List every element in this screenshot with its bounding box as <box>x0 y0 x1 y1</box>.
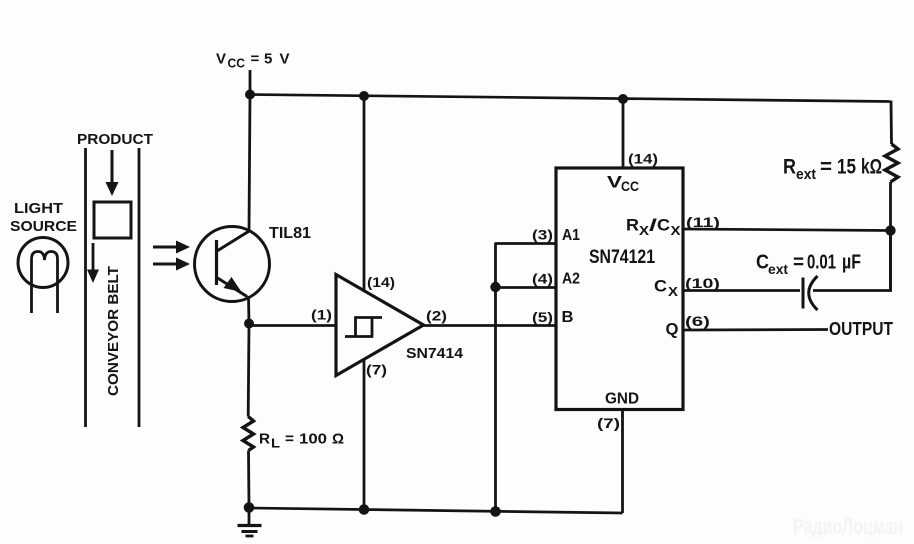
svg-text:ext: ext <box>796 166 816 183</box>
svg-text:(11): (11) <box>686 214 720 230</box>
wire RL to ground rail <box>247 451 250 509</box>
svg-text:V: V <box>216 51 226 68</box>
resistor Rext zigzag <box>885 144 898 182</box>
svg-text:X: X <box>639 223 649 238</box>
label LIGHT SOURCE <box>10 200 77 235</box>
hysteresis symbol <box>345 318 382 337</box>
svg-text:(7): (7) <box>366 362 387 378</box>
svg-text:(14): (14) <box>628 151 658 167</box>
conveyor belt left line <box>84 148 87 427</box>
wire emitter node to RL <box>247 324 251 417</box>
node VCC label <box>216 51 290 71</box>
belt motion arrow <box>87 243 99 283</box>
wire emitter to U1 input <box>249 324 336 327</box>
junction dot ground/U1 pin7 <box>359 504 370 515</box>
wire U2 pin11 to Rext node <box>683 229 891 231</box>
product square <box>94 202 131 238</box>
junction dot emitter node <box>244 319 254 329</box>
svg-text:OUTPUT: OUTPUT <box>829 319 893 339</box>
wire ground rail <box>249 508 623 513</box>
svg-text:CONVEYOR BELT: CONVEYOR BELT <box>105 266 122 396</box>
svg-text:R: R <box>259 431 270 448</box>
IC U2 SN74121 box <box>556 168 683 410</box>
svg-text:CC: CC <box>621 179 639 194</box>
wire top VCC rail <box>249 95 891 102</box>
svg-text:L: L <box>271 437 280 451</box>
junction dot Rext/Cext node <box>885 225 895 235</box>
conveyor belt right line <box>138 148 141 427</box>
op-amp U1 SN7414 schmitt inverter triangle <box>336 275 424 376</box>
junction dot VCC/U1 pin14 <box>359 91 369 101</box>
svg-text:(14): (14) <box>367 274 395 290</box>
svg-text:100: 100 <box>299 431 327 448</box>
svg-text:(1): (1) <box>311 307 332 323</box>
svg-text:(10): (10) <box>685 275 720 291</box>
svg-text:A1: A1 <box>562 227 580 244</box>
wire U1 output to U2 pin B <box>423 324 556 327</box>
svg-text:CC: CC <box>228 57 246 71</box>
transistor Q1 TIL81 phototransistor <box>195 227 270 302</box>
svg-text:15: 15 <box>837 156 856 179</box>
svg-text:0.01: 0.01 <box>807 252 836 274</box>
wire VCC rail to Rext <box>890 101 893 145</box>
svg-text:C: C <box>654 277 667 296</box>
svg-text:(5): (5) <box>532 309 553 325</box>
svg-text:PRODUCT: PRODUCT <box>77 132 153 148</box>
wire U2 Q output <box>683 328 828 331</box>
svg-text:X: X <box>668 284 678 299</box>
svg-text:Q: Q <box>666 320 679 339</box>
junction dot VCC/U2 pin14 <box>618 94 628 104</box>
junction dot ground/A-net <box>490 506 501 517</box>
wire Rext to node <box>889 182 892 291</box>
svg-text:R: R <box>783 156 796 179</box>
svg-text:R: R <box>626 216 639 235</box>
label RL value <box>259 431 344 451</box>
svg-text:=: = <box>285 431 294 448</box>
svg-text:LIGHT: LIGHT <box>14 200 63 217</box>
svg-text:(6): (6) <box>685 313 710 329</box>
wire U2 pin4 A2 <box>496 286 557 289</box>
svg-text:(2): (2) <box>426 308 447 324</box>
svg-text:ext: ext <box>768 261 788 277</box>
svg-text:V: V <box>280 51 290 68</box>
svg-text:РадиоЛоцман: РадиоЛоцман <box>793 514 903 539</box>
label Rext value <box>783 156 882 184</box>
svg-text:Ω: Ω <box>332 431 344 448</box>
wire VCC stub <box>249 70 252 95</box>
svg-text:SOURCE: SOURCE <box>10 218 77 235</box>
svg-text:µF: µF <box>842 252 861 274</box>
wire U1 pin14 to VCC rail <box>363 96 366 291</box>
label U2 RX/CX pin name <box>626 216 681 239</box>
svg-text:SN74121: SN74121 <box>589 247 655 268</box>
svg-text:C: C <box>657 216 670 235</box>
ground symbol <box>238 508 262 536</box>
wire Q1 emitter <box>247 296 250 324</box>
svg-text:X: X <box>671 223 681 238</box>
label Cext value <box>756 252 861 278</box>
junction dot A2 net <box>490 282 500 292</box>
label U2 CX pin name <box>654 277 678 300</box>
junction dot VCC/Q1 collector <box>245 90 255 100</box>
label U2 VCC pin name <box>607 173 639 195</box>
svg-text:kΩ: kΩ <box>861 156 882 179</box>
light arrow lower <box>153 258 190 271</box>
wire U2 pin10 to Cext <box>683 289 800 292</box>
capacitor Cext <box>803 276 818 310</box>
wire U2 pin7 to ground rail <box>621 409 624 513</box>
svg-text:(4): (4) <box>532 271 553 287</box>
product arrow <box>106 150 119 196</box>
svg-text:=: = <box>251 51 260 68</box>
junction dot ground/RL <box>244 502 255 513</box>
svg-text:=: = <box>820 156 832 179</box>
wire Q1 collector <box>249 95 250 230</box>
light arrow upper <box>153 241 190 254</box>
wire U1 pin7 to ground rail <box>363 359 366 511</box>
svg-text:B: B <box>562 309 574 326</box>
svg-text:GND: GND <box>605 391 639 408</box>
svg-text:=: = <box>793 252 804 274</box>
svg-text:TIL81: TIL81 <box>269 225 311 242</box>
wire A1/A2 net vertical <box>494 244 497 512</box>
svg-text:(3): (3) <box>532 227 553 243</box>
wire Cext to Rext node <box>813 232 891 291</box>
svg-text:SN7414: SN7414 <box>406 346 464 362</box>
lamp light source <box>18 238 68 314</box>
svg-text:A2: A2 <box>562 271 580 288</box>
resistor RL zigzag <box>243 417 254 451</box>
wire U2 pin14 to VCC rail <box>622 99 625 168</box>
svg-text:(7): (7) <box>597 415 620 431</box>
svg-text:5: 5 <box>264 51 272 68</box>
wire U2 pin3 A1 <box>495 242 557 245</box>
